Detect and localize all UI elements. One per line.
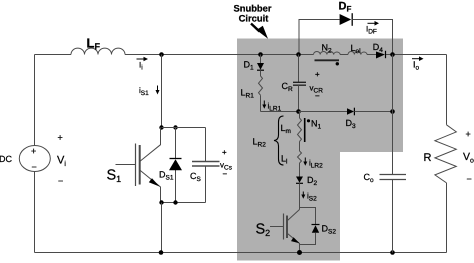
node S1 top right xyxy=(173,125,177,129)
diode D1 xyxy=(257,55,264,71)
wire S1 emitter to bottom rail xyxy=(161,203,163,253)
S2 emitter arrowhead xyxy=(291,237,300,243)
inductor LF xyxy=(71,48,125,54)
node bottom S1 xyxy=(159,250,164,255)
svg-text:−: − xyxy=(315,92,320,101)
svg-text:Ii: Ii xyxy=(139,61,143,72)
node D3 right xyxy=(390,109,395,114)
resistor R xyxy=(435,125,456,183)
node bottom Co xyxy=(390,250,395,255)
wire right rail bottom xyxy=(446,183,448,253)
current arrow I_DF xyxy=(366,21,379,36)
svg-text:Co: Co xyxy=(364,172,375,184)
svg-text:S1: S1 xyxy=(107,168,122,185)
svg-text:−: − xyxy=(32,162,37,172)
wire Ll to D2 xyxy=(299,163,301,177)
labels + vCR - xyxy=(310,70,324,101)
capacitor CS xyxy=(192,128,220,203)
svg-text:iS1: iS1 xyxy=(139,86,149,97)
inductor Ll xyxy=(298,151,302,163)
node bottom S2 xyxy=(297,250,302,255)
brace LR2 xyxy=(274,116,284,165)
wire D3 right xyxy=(354,111,392,113)
arrow to snubber region xyxy=(251,24,268,39)
wire top rail xyxy=(35,54,447,56)
diode D3 xyxy=(347,108,354,116)
current arrow i_LR1 xyxy=(262,101,281,113)
diode D2 xyxy=(296,177,303,184)
wire right rail top xyxy=(446,55,448,125)
inductor LR1 xyxy=(259,70,263,111)
S1 emitter arrowhead xyxy=(149,178,160,186)
diode DS1 xyxy=(169,128,182,203)
current arrow i_S2 xyxy=(301,192,317,203)
svg-text:−: − xyxy=(223,170,228,179)
capacitor CR xyxy=(293,55,306,112)
svg-text:CS: CS xyxy=(190,171,202,183)
wire DF branch right xyxy=(352,20,392,55)
wire Co riser xyxy=(392,112,394,175)
wire LR1 bottom to CR node xyxy=(261,111,299,113)
current arrow I_i xyxy=(137,57,149,72)
label Snubber Circuit xyxy=(233,2,271,23)
node S1 bottom right xyxy=(173,200,177,204)
transformer winding N1 with Lm xyxy=(298,112,302,152)
svg-text:DF: DF xyxy=(339,0,352,13)
diode D4 xyxy=(376,51,386,59)
svg-text:DS1: DS1 xyxy=(159,170,174,182)
current arrow i_LR2 xyxy=(303,158,323,170)
svg-text:LF: LF xyxy=(87,36,101,52)
transformer core bar xyxy=(304,118,306,142)
svg-text:Vo: Vo xyxy=(463,151,474,165)
wire DF branch left riser xyxy=(299,20,340,55)
dc source xyxy=(19,146,50,173)
current label i_S1 xyxy=(139,86,160,98)
wire D2 to S2 xyxy=(299,183,301,209)
svg-text:Circuit: Circuit xyxy=(239,12,269,23)
node S1 bottom left xyxy=(159,200,163,204)
wire S1 cell top xyxy=(162,127,206,129)
svg-text:+: + xyxy=(222,148,227,157)
wire D3 left xyxy=(299,111,348,113)
IGBT S2 xyxy=(270,210,300,253)
svg-text:−: − xyxy=(58,176,63,186)
svg-text:+: + xyxy=(58,133,63,143)
snubber shaded region xyxy=(237,39,403,261)
current arrow I_o xyxy=(412,56,424,71)
svg-text:+: + xyxy=(315,70,320,79)
node CR bottom xyxy=(296,109,301,114)
label Vo with polarity xyxy=(463,129,474,184)
svg-text:+: + xyxy=(466,129,471,139)
diode DF xyxy=(340,13,353,26)
svg-text:+: + xyxy=(31,146,36,156)
wire S1 collector drop xyxy=(161,55,163,128)
N1 polarity dot xyxy=(307,119,310,122)
svg-text:Vi: Vi xyxy=(57,155,66,169)
node rail-CR xyxy=(296,52,301,57)
diode DS2 branch xyxy=(300,208,320,245)
labels + vCs - xyxy=(220,148,233,179)
svg-text:−: − xyxy=(467,174,472,184)
inductor Lol xyxy=(348,52,367,55)
node rail-S1 xyxy=(159,52,164,57)
bottom rail xyxy=(35,252,447,254)
wire S1 cell bottom xyxy=(162,202,206,204)
svg-text:IDF: IDF xyxy=(366,25,377,36)
node rail-D4 xyxy=(390,52,395,57)
svg-text:R: R xyxy=(424,152,432,164)
capacitor Co xyxy=(380,175,407,253)
node rail-D1 xyxy=(258,52,263,57)
wire rail riser between rails xyxy=(392,55,394,112)
svg-text:Io: Io xyxy=(413,60,420,72)
svg-text:DC: DC xyxy=(0,154,12,164)
wire left rail xyxy=(34,55,36,253)
node S1 top left xyxy=(159,125,163,129)
IGBT S1 xyxy=(116,128,161,203)
winding N2 xyxy=(314,51,341,65)
label Vi with polarity xyxy=(57,133,66,187)
